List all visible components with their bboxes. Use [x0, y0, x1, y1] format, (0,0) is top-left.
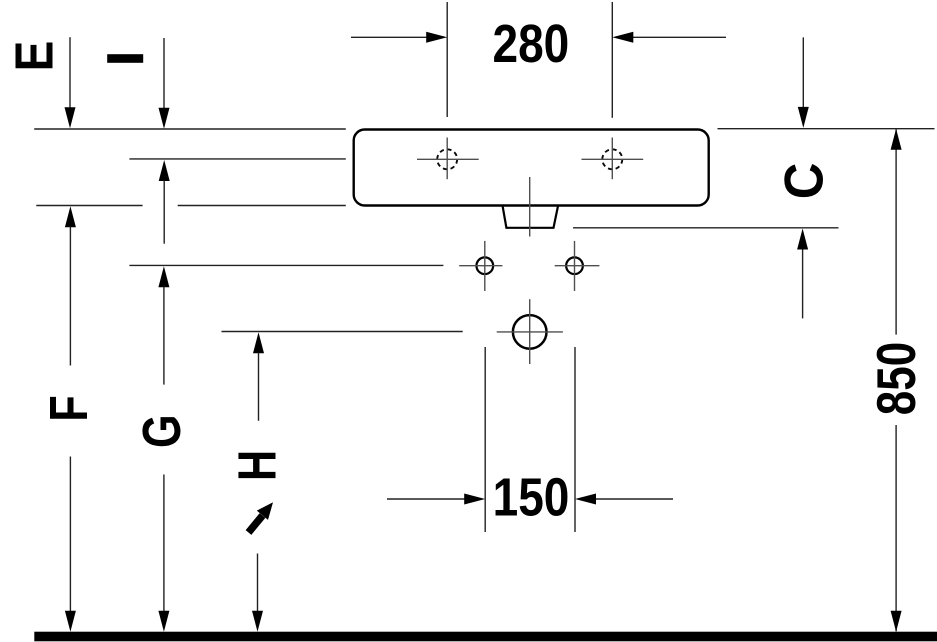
dimension F line upper segment — [69, 227, 71, 366]
diagonal pointer arrow below H — [249, 516, 263, 533]
dimension 280 extension line left — [446, 2, 448, 117]
dimension F bottom arrow — [65, 611, 76, 632]
dimension H top arrow (to drain center line) — [253, 332, 264, 353]
svg-text:280: 280 — [493, 14, 570, 74]
dimension 850 bottom arrow — [891, 611, 902, 632]
dimension 150 left arrow — [387, 498, 465, 500]
dimension C top arrow — [802, 37, 804, 107]
dimension 850 line upper segment — [895, 130, 897, 335]
dimension 150 extension line left — [484, 347, 486, 532]
dimension 850 line lower segment — [895, 425, 897, 631]
dimension H bottom arrow — [252, 611, 263, 632]
svg-text:F: F — [40, 395, 100, 421]
drain pipe circle crosshair — [529, 299, 531, 364]
svg-text:E: E — [4, 41, 64, 72]
dimension 280 right arrow — [632, 36, 726, 38]
dimension G line upper segment — [163, 287, 165, 385]
drain pipe circle — [513, 315, 547, 349]
dimension 850 top arrow — [891, 129, 902, 150]
dimension 280 extension line right — [611, 2, 613, 118]
mounting hole left — [476, 257, 493, 274]
faucet hole right crosshair — [611, 138, 613, 180]
wire: left horizontal reference line at mounting holes level — [129, 264, 443, 266]
svg-text:850: 850 — [865, 342, 927, 415]
dimension G bottom arrow — [158, 611, 169, 632]
drain outlet trapezoid — [503, 206, 559, 228]
dimension F top arrow — [65, 206, 76, 227]
drain outlet centerline — [529, 177, 531, 237]
dimension G upper leader arrow (to faucet level line) — [159, 160, 170, 181]
faucet hole right (dashed) — [602, 149, 622, 169]
faucet hole left crosshair — [446, 138, 448, 180]
basin outline — [354, 130, 709, 206]
svg-text:C: C — [774, 163, 835, 200]
svg-text:G: G — [133, 414, 193, 448]
wire: right horizontal reference line at basin top level — [718, 128, 935, 130]
dimension I arrow — [163, 38, 165, 109]
dimension 150 right arrow — [595, 498, 673, 500]
dimension H line lower segment — [257, 554, 259, 612]
wire: left horizontal reference line at basin bottom level (right piece) — [178, 205, 346, 207]
dimension 280 left arrow — [351, 36, 427, 38]
mounting hole right — [566, 257, 583, 274]
wire: left horizontal reference line at basin top level — [34, 128, 346, 130]
dimension F line lower segment — [69, 457, 71, 612]
dimension 150 extension line right — [574, 347, 576, 532]
svg-text:H: H — [228, 450, 288, 481]
dimension H line upper segment — [258, 353, 260, 421]
wire: left horizontal reference line at faucet hole level — [129, 158, 345, 160]
floor line — [34, 632, 937, 642]
label I — [107, 54, 143, 63]
svg-text:150: 150 — [493, 467, 570, 527]
wire: right horizontal reference line at drain outlet bottom level — [573, 227, 839, 229]
dimension G top arrow (to mounting hole level line) — [158, 266, 169, 287]
faucet hole left (dashed) — [437, 149, 457, 169]
wire: left horizontal reference line at basin bottom level (left piece) — [36, 205, 142, 207]
dimension E arrow — [69, 37, 71, 108]
dimension G line lower segment — [163, 475, 165, 612]
mounting hole left crosshair — [484, 241, 486, 291]
wire: left horizontal reference line at drain center level — [222, 331, 463, 333]
mounting hole right crosshair — [574, 241, 576, 291]
dimension C bottom arrow — [802, 249, 804, 318]
